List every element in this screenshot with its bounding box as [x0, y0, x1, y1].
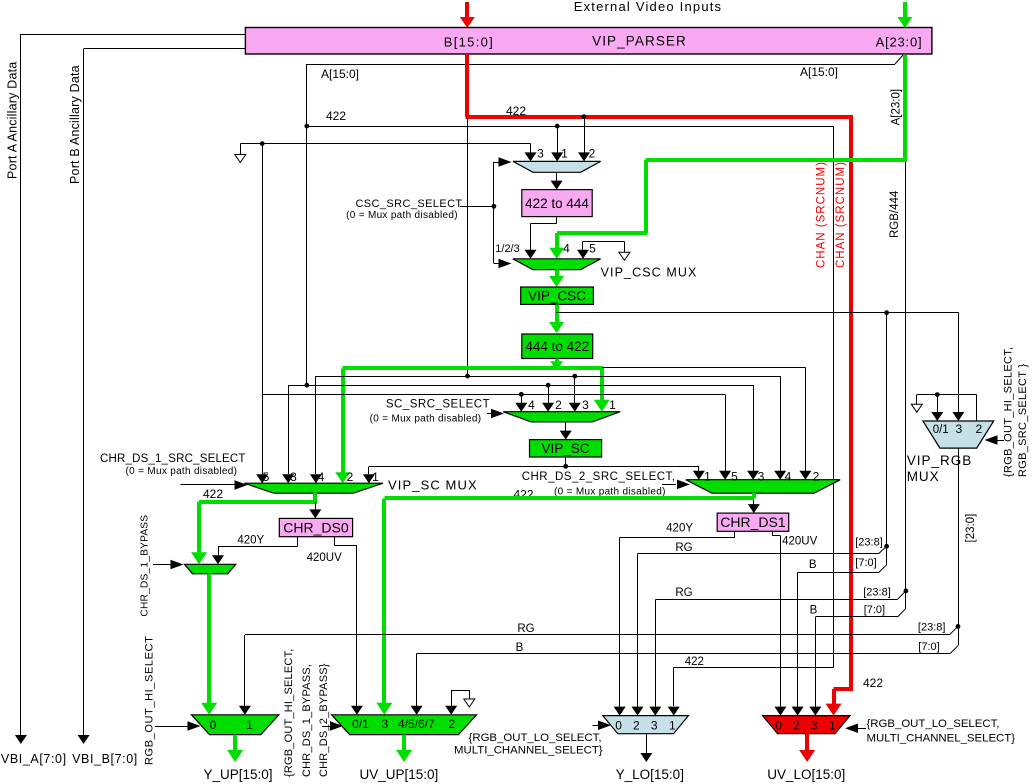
- svg-text:CHR_DS1: CHR_DS1: [720, 514, 786, 530]
- svg-text:RG: RG: [675, 542, 692, 554]
- svg-text:444 to 422: 444 to 422: [525, 339, 589, 354]
- svg-text:{RGB_OUT_HI_SELECT,: {RGB_OUT_HI_SELECT,: [1003, 347, 1015, 477]
- svg-text:2: 2: [449, 717, 456, 731]
- svg-text:{RGB_OUT_LO_SELECT,: {RGB_OUT_LO_SELECT,: [867, 718, 1000, 730]
- svg-text:4/5/6/7: 4/5/6/7: [398, 717, 435, 731]
- svg-text:[23:0]: [23:0]: [965, 514, 977, 543]
- svg-text:3: 3: [290, 470, 297, 484]
- svg-text:422: 422: [506, 104, 526, 118]
- svg-text:B[15:0]: B[15:0]: [444, 34, 494, 49]
- svg-text:UV_LO[15:0]: UV_LO[15:0]: [767, 767, 845, 782]
- svg-text:4: 4: [563, 242, 570, 256]
- svg-text:External Video Inputs: External Video Inputs: [574, 0, 723, 14]
- svg-text:(0 = Mux path disabled): (0 = Mux path disabled): [126, 466, 238, 477]
- svg-text:VIP_RGB: VIP_RGB: [907, 453, 973, 468]
- svg-text:[23:8]: [23:8]: [855, 537, 883, 549]
- svg-text:A[15:0]: A[15:0]: [800, 65, 838, 79]
- svg-text:MULTI_CHANNEL_SELECT}: MULTI_CHANNEL_SELECT}: [867, 733, 1016, 745]
- svg-text:RG: RG: [675, 587, 692, 599]
- svg-text:B: B: [810, 605, 818, 617]
- svg-text:(0 = Mux path disabled): (0 = Mux path disabled): [346, 210, 458, 221]
- svg-text:(0 = Mux path disabled): (0 = Mux path disabled): [370, 414, 482, 425]
- svg-text:CHR_DS_1_SRC_SELECT: CHR_DS_1_SRC_SELECT: [100, 453, 246, 465]
- svg-text:{RGB_OUT_HI_SELECT,: {RGB_OUT_HI_SELECT,: [283, 648, 295, 777]
- svg-text:2: 2: [555, 398, 562, 412]
- svg-text:422: 422: [326, 109, 346, 123]
- svg-text:VIP_PARSER: VIP_PARSER: [592, 34, 687, 49]
- svg-text:420UV: 420UV: [307, 552, 342, 564]
- svg-text:0: 0: [210, 718, 217, 732]
- svg-text:422: 422: [203, 487, 223, 501]
- svg-text:CHAN (SRCNUM): CHAN (SRCNUM): [816, 161, 828, 268]
- svg-text:1: 1: [246, 718, 253, 732]
- svg-text:A[23:0]: A[23:0]: [891, 89, 903, 125]
- svg-text:MUX: MUX: [907, 469, 940, 484]
- svg-text:RG: RG: [517, 623, 534, 635]
- svg-text:2: 2: [793, 719, 800, 733]
- svg-text:{RGB_OUT_LO_SELECT,: {RGB_OUT_LO_SELECT,: [469, 732, 602, 744]
- svg-text:VIP_CSC: VIP_CSC: [528, 289, 586, 304]
- svg-text:[23:8]: [23:8]: [918, 622, 946, 634]
- svg-text:2: 2: [347, 470, 354, 484]
- svg-text:B: B: [809, 559, 817, 571]
- svg-text:[23:8]: [23:8]: [863, 587, 891, 599]
- svg-text:3: 3: [537, 147, 544, 161]
- svg-text:CHR_DS_2_BYPASS}: CHR_DS_2_BYPASS}: [318, 663, 330, 777]
- svg-text:0/1: 0/1: [352, 717, 369, 731]
- svg-text:RGB_OUT_HI_SELECT: RGB_OUT_HI_SELECT: [144, 636, 156, 765]
- svg-text:[7:0]: [7:0]: [855, 557, 876, 569]
- svg-text:CHR_DS_2_SRC_SELECT,: CHR_DS_2_SRC_SELECT,: [522, 471, 676, 483]
- svg-text:CHR_DS_1_BYPASS: CHR_DS_1_BYPASS: [140, 515, 151, 617]
- svg-text:420Y: 420Y: [666, 523, 693, 535]
- svg-text:1: 1: [669, 719, 676, 733]
- svg-text:1: 1: [829, 719, 836, 733]
- svg-text:1: 1: [609, 398, 616, 412]
- svg-text:3: 3: [955, 422, 962, 436]
- svg-text:420UV: 420UV: [782, 536, 817, 548]
- svg-text:4: 4: [785, 470, 792, 484]
- svg-text:VBI_A[7:0]: VBI_A[7:0]: [1, 752, 67, 766]
- svg-text:420Y: 420Y: [237, 535, 264, 547]
- svg-text:2: 2: [813, 470, 820, 484]
- svg-text:0: 0: [615, 719, 622, 733]
- svg-text:VIP_SC MUX: VIP_SC MUX: [388, 478, 478, 493]
- svg-text:3: 3: [382, 717, 389, 731]
- svg-text:CSC_SRC_SELECT: CSC_SRC_SELECT: [355, 198, 462, 210]
- svg-text:VIP_CSC MUX: VIP_CSC MUX: [601, 266, 698, 280]
- svg-text:0: 0: [775, 719, 782, 733]
- svg-text:2: 2: [976, 422, 983, 436]
- svg-text:0/1: 0/1: [933, 424, 949, 436]
- svg-text:Port A Ancillary Data: Port A Ancillary Data: [6, 62, 20, 179]
- svg-text:Y_LO[15:0]: Y_LO[15:0]: [616, 767, 684, 782]
- svg-text:4: 4: [528, 398, 535, 412]
- svg-text:UV_UP[15:0]: UV_UP[15:0]: [360, 767, 439, 782]
- svg-text:2: 2: [589, 147, 596, 161]
- svg-text:1: 1: [372, 470, 379, 484]
- svg-text:422: 422: [863, 676, 883, 690]
- svg-text:[7:0]: [7:0]: [864, 604, 885, 616]
- svg-text:1: 1: [561, 147, 568, 161]
- svg-text:VBI_B[7:0]: VBI_B[7:0]: [72, 752, 138, 766]
- svg-text:SC_SRC_SELECT: SC_SRC_SELECT: [386, 399, 490, 411]
- svg-text:A[15:0]: A[15:0]: [321, 67, 359, 81]
- svg-text:(0 = Mux path disabled): (0 = Mux path disabled): [554, 487, 666, 498]
- svg-text:MULTI_CHANNEL_SELECT}: MULTI_CHANNEL_SELECT}: [454, 745, 603, 757]
- svg-text:Y_UP[15:0]: Y_UP[15:0]: [203, 767, 272, 782]
- svg-text:3: 3: [758, 470, 765, 484]
- svg-text:1/2/3: 1/2/3: [495, 243, 519, 255]
- svg-text:RGB_SRC_SELECT }: RGB_SRC_SELECT }: [1017, 364, 1029, 477]
- svg-text:VIP_SC: VIP_SC: [542, 441, 590, 456]
- svg-text:422 to 444: 422 to 444: [525, 196, 589, 211]
- svg-text:3: 3: [582, 398, 589, 412]
- svg-text:5: 5: [589, 242, 596, 256]
- svg-text:CHR_DS0: CHR_DS0: [283, 520, 349, 536]
- svg-text:CHR_DS_1_BYPASS,: CHR_DS_1_BYPASS,: [301, 664, 313, 777]
- svg-text:1: 1: [704, 470, 711, 484]
- svg-text:Port B Ancillary Data: Port B Ancillary Data: [68, 65, 82, 184]
- svg-text:B: B: [516, 642, 524, 654]
- svg-text:3: 3: [651, 719, 658, 733]
- svg-text:CHAN (SRCNUM): CHAN (SRCNUM): [835, 161, 847, 268]
- svg-text:4: 4: [318, 470, 325, 484]
- svg-text:3: 3: [811, 719, 818, 733]
- svg-text:2: 2: [633, 719, 640, 733]
- svg-text:A[23:0]: A[23:0]: [876, 34, 923, 49]
- svg-text:5: 5: [731, 470, 738, 484]
- svg-text:5: 5: [263, 470, 270, 484]
- svg-text:422: 422: [685, 656, 704, 668]
- svg-text:[7:0]: [7:0]: [918, 641, 939, 653]
- svg-text:RGB/444: RGB/444: [889, 190, 901, 238]
